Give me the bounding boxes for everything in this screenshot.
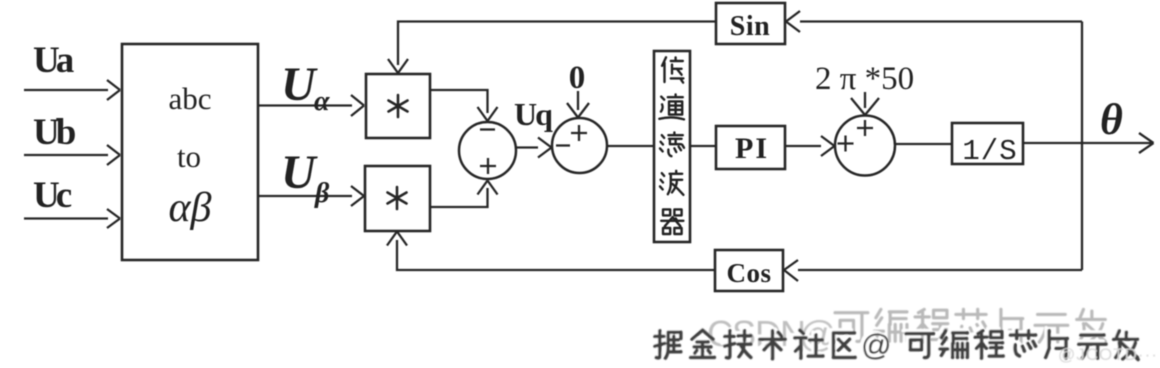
svg-text:0: 0 xyxy=(569,60,586,96)
svg-text:α: α xyxy=(314,86,330,117)
wire U-alpha xyxy=(258,95,364,116)
wire summing3 to 1/S xyxy=(895,143,952,145)
watermark dark juejin text layer xyxy=(655,330,1138,359)
wire Uc input xyxy=(24,209,120,228)
svg-text:Cos: Cos xyxy=(726,258,771,288)
svg-text:Ub: Ub xyxy=(33,112,76,153)
wire zero into summing2 xyxy=(567,91,589,118)
hanzi lv (filter) in LPF xyxy=(660,133,684,157)
svg-text:abc: abc xyxy=(168,81,211,116)
svg-text:Uq: Uq xyxy=(514,96,553,132)
svg-text:2 π *50: 2 π *50 xyxy=(815,61,914,97)
svg-text:U: U xyxy=(281,58,318,111)
summing junction 1 xyxy=(459,122,516,179)
asterisk in multiplier1 xyxy=(389,95,408,117)
hanzi bo (wave) in LPF xyxy=(660,171,683,195)
block low-pass filter xyxy=(654,51,690,242)
svg-text:to: to xyxy=(177,139,201,174)
sign plus in summing1 xyxy=(480,158,496,174)
wire multiplier2 to summing1 xyxy=(430,181,498,208)
block abc-to-alphabeta xyxy=(122,44,258,260)
sign minus in summing1 xyxy=(480,128,495,130)
wire multiplier1 to summing1 xyxy=(430,90,498,121)
sign plus in summing2 xyxy=(571,125,587,141)
wire 2pi50 into summing3 xyxy=(851,92,879,115)
svg-text:θ: θ xyxy=(1100,95,1123,144)
wire Ub input xyxy=(24,145,120,165)
block multiplier 1 xyxy=(366,74,430,138)
wire feedback vertical right xyxy=(1081,22,1083,271)
watermark dark juejin white shadow layer xyxy=(652,327,1136,356)
hanzi di (low) in LPF xyxy=(662,57,683,82)
sign plus top in summing3 xyxy=(857,120,873,136)
svg-text:Ua: Ua xyxy=(33,40,74,81)
wire theta-node to Cos xyxy=(784,260,1082,281)
wire LPF to PI xyxy=(690,145,716,147)
block PI xyxy=(716,126,785,169)
hanzi qi (device) in LPF xyxy=(661,209,683,234)
wire Uq summing1 to summing2 xyxy=(516,138,552,158)
summing junction 3 xyxy=(835,116,895,176)
svg-text:1/S: 1/S xyxy=(962,135,1017,168)
svg-text:U: U xyxy=(281,146,318,199)
summing junction 2 xyxy=(552,118,607,173)
svg-text:@JCOTD···: @JCOTD··· xyxy=(1058,345,1158,364)
hanzi tong (pass) in LPF xyxy=(659,95,684,120)
wire summing2 to LPF xyxy=(607,145,654,147)
svg-text:Uc: Uc xyxy=(33,175,72,216)
sign minus in summing2 xyxy=(556,144,570,146)
svg-text:αβ: αβ xyxy=(169,185,212,231)
wire theta-node to Sin xyxy=(786,11,1082,32)
asterisk in multiplier2 xyxy=(388,187,407,209)
svg-text:@: @ xyxy=(861,329,891,362)
wire U-beta xyxy=(258,186,364,206)
svg-text:PI: PI xyxy=(735,132,769,165)
wire Ua input xyxy=(24,80,120,100)
block Sin xyxy=(716,3,785,44)
block 1/S integrator xyxy=(952,123,1023,164)
watermark light hanzi ke-bian-cheng-xin-pian-kai-fa xyxy=(835,313,868,342)
block Cos xyxy=(715,250,783,291)
svg-text:β: β xyxy=(314,178,330,209)
wire theta output xyxy=(1023,133,1154,153)
wire Sin feedback top xyxy=(388,22,716,74)
wire PI to summing3 xyxy=(785,136,835,156)
sign plus left in summing3 xyxy=(838,136,854,152)
block multiplier 2 xyxy=(365,166,430,231)
wire Cos feedback to multiplier2 xyxy=(387,232,715,271)
svg-text:Sin: Sin xyxy=(730,11,770,42)
